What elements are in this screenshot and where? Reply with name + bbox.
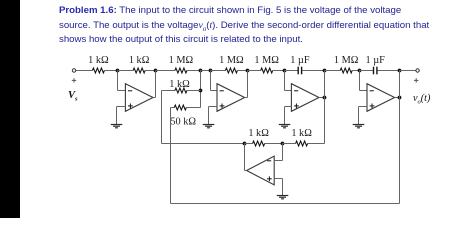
output terminal (+) [414, 69, 419, 83]
svg-text:1 µF: 1 µF [366, 55, 386, 66]
wire R6 to node H [352, 70, 359, 72]
node G (op3 output junction on rail) [323, 69, 327, 73]
wire op4 output to junction [395, 97, 400, 99]
svg-text:1 kΩ: 1 kΩ [169, 79, 190, 90]
svg-text:1 MΩ: 1 MΩ [334, 55, 359, 66]
wire node H down to op4 minus input [360, 71, 368, 91]
wire op5 plus input to ground lead [274, 179, 282, 196]
resistor R6 1 Mohm [334, 55, 359, 73]
capacitor C2 1 uF (op4 feedback) [366, 55, 386, 75]
op-amp U2 [217, 84, 245, 112]
svg-text:1 µF: 1 µF [290, 55, 310, 66]
ground of op2 [203, 125, 215, 128]
node D (op2 inverting input) [209, 69, 213, 73]
svg-text:1 kΩ: 1 kΩ [129, 55, 150, 66]
wire op3 output to junction [319, 97, 325, 99]
svg-text:1 MΩ: 1 MΩ [219, 55, 244, 66]
wire R9 to node C2 [187, 90, 201, 92]
svg-text:1 MΩ: 1 MΩ [169, 55, 194, 66]
wire node H to C2 [360, 70, 374, 72]
node B (op1 output) [154, 69, 158, 73]
wire R4 to node E [237, 70, 247, 72]
node C2 (junction with 1k feedback resistor row) [199, 89, 203, 93]
wire op5-output loop: left riser [161, 91, 163, 144]
wire node D down to op2 minus input [211, 71, 218, 91]
wire node C to node D [201, 70, 211, 72]
wire node E to R5 [248, 70, 261, 72]
label 50 kohm [170, 117, 196, 128]
wire op3 plus input to ground lead [285, 107, 292, 125]
ground of op1 [111, 125, 123, 128]
wire node K down to op5 minus input [274, 144, 282, 161]
wire node F to C1 [285, 70, 298, 72]
resistor R7 1 kohm (op5 feedback) [248, 128, 269, 146]
op-amp U3 [291, 84, 319, 112]
wire C1 to node G [302, 70, 324, 72]
svg-text:50 kΩ: 50 kΩ [170, 117, 196, 128]
resistor R9 1 kohm (into summing node) [169, 79, 190, 93]
ground of op4 [353, 125, 365, 128]
wire node K to R8 [283, 143, 296, 145]
resistor R1 1 kohm [88, 55, 109, 73]
resistor R5 1 Mohm [254, 55, 279, 73]
wire node A down to op1 minus input [118, 71, 126, 91]
wire op5 output row: from left riser to node J [162, 143, 245, 145]
wire op1 plus input to ground lead [117, 107, 126, 125]
svg-text:1 kΩ: 1 kΩ [291, 128, 312, 139]
node C (summing junction) [199, 69, 203, 73]
wire node A to R2 [118, 70, 134, 72]
wire R8 to riser up to node G2 [308, 98, 325, 144]
node J (op5 output node) [243, 142, 247, 146]
wire R2 to node B [145, 70, 155, 72]
resistor R3 1 Mohm [169, 55, 194, 73]
svg-text:1 MΩ: 1 MΩ [254, 55, 279, 66]
svg-text:1 kΩ: 1 kΩ [248, 128, 269, 139]
ground of op3 [279, 125, 291, 128]
svg-text:1 kΩ: 1 kΩ [88, 55, 109, 66]
op-amp U4 [367, 84, 395, 112]
wire left riser to R7a [162, 90, 175, 92]
node F (op3 inverting input) [283, 69, 287, 73]
wire node G to R6 [325, 70, 341, 72]
wire op2 output up to node E [245, 71, 248, 98]
left black bar [0, 0, 20, 218]
input terminal (+) of voltage source Vs [72, 69, 76, 83]
wire R10 to node C drop [186, 107, 200, 109]
op-amp U1 [125, 84, 153, 112]
node I2 (op4 output junction) [398, 96, 402, 100]
wire node C down through second row to 50k row [200, 71, 202, 108]
wire node D to R4 [211, 70, 226, 72]
wire C2 to node I [378, 70, 400, 72]
wire op2 plus input to ground lead [209, 107, 218, 125]
wire op4 plus input to ground lead [359, 107, 368, 125]
resistor R4 1 Mohm (op2 feedback) [219, 55, 244, 73]
label vo(t) output voltage [413, 93, 431, 106]
node A (op1 inverting input junction) [116, 69, 120, 73]
node H (op4 inverting input) [358, 69, 362, 73]
wire R1 to node A [104, 70, 117, 72]
wire op1 output up to node B [153, 71, 156, 98]
resistor R2 1 kohm (op1 feedback) [129, 55, 150, 73]
wire bottom rail of feedback loop [171, 203, 400, 205]
svg-text:Vs: Vs [68, 90, 78, 103]
wire R7 to node K [265, 143, 283, 145]
svg-text:vo(t): vo(t) [413, 93, 431, 106]
resistor R8 1 kohm (from vo to op5) [291, 128, 312, 146]
wire node B to R3 [156, 70, 175, 72]
wire output riser down right side [399, 98, 401, 204]
capacitor C1 1 uF (op3 feedback) [290, 55, 310, 75]
wire node F down to op3 minus input [285, 71, 292, 91]
wire op5 output up to node J [245, 144, 247, 171]
problem statement text [59, 4, 474, 48]
op-amp U5 (left-pointing) [247, 156, 275, 185]
resistor R10 50 kohm (output feedback) [174, 105, 186, 110]
node E (op2 output) [246, 69, 250, 73]
wire input to R1 [76, 70, 92, 72]
wire junction G2 up to rail node G [324, 71, 326, 98]
node I (output node on rail) [398, 69, 402, 73]
wire 50k riser from bottom rail [170, 108, 172, 204]
node G2 (op3 output junction) [323, 96, 327, 100]
wire junction I2 up to rail node I [399, 71, 401, 98]
label Vs (source voltage) [68, 90, 78, 103]
wire riser to R10 [171, 107, 175, 109]
wire node I to output terminal [400, 70, 416, 72]
node K (op5 inverting input) [281, 142, 285, 146]
ground of op5 [277, 196, 289, 199]
wire node J to R7 [245, 143, 253, 145]
wire R3 to node C [187, 70, 201, 72]
wire R5 to node F [273, 70, 285, 72]
